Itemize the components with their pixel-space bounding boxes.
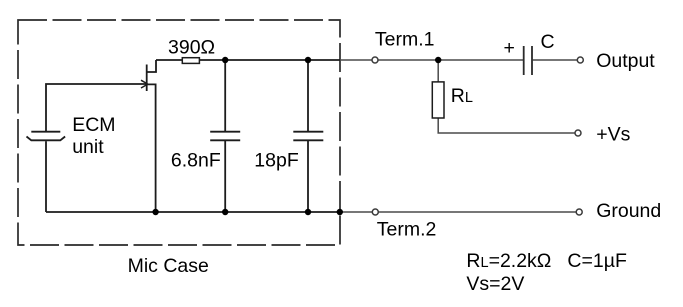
wire: RL top lead [437,60,439,82]
capacitor C2 18pF plates [293,132,323,141]
svg-text:Term.1: Term.1 [375,28,435,50]
junction dot bottom rail / C2 [305,209,311,215]
junction dot bottom rail / source [152,209,158,215]
capacitor C1 6.8nF plates [210,132,240,141]
svg-text:RL=2.2kΩ: RL=2.2kΩ [466,250,551,272]
wire: top rail resistor to case edge [199,59,340,61]
wire: C right plate to Output terminal [533,59,580,61]
wire: top rail inside case (drain to resistor) [156,59,182,61]
ECM capsule bottom plate [27,137,66,141]
svg-text:Mic Case: Mic Case [128,255,209,277]
junction dot top rail / C2 [305,57,311,63]
resistor RL body [432,82,444,118]
capacitor C plates [524,46,532,75]
ECM capsule top plate [31,131,60,133]
capacitor C2 18pF top lead [307,60,309,132]
junction dot top rail / RL [435,57,441,63]
capacitor C2 18pF bottom lead [307,141,309,212]
svg-text:Vs=2V: Vs=2V [466,273,524,295]
capacitor C1 6.8nF bottom lead [224,141,226,212]
svg-text:Ground: Ground [596,200,661,222]
capacitor C1 6.8nF top lead [224,60,226,132]
wire: gate wire from ECM top lead [46,84,147,131]
wire: top rail case edge to C left plate [340,59,523,61]
terminal Term.1 open circle [372,57,378,63]
terminal Ground open circle [576,209,582,215]
svg-text:ECM: ECM [72,114,115,136]
junction dot bottom rail / C1 [222,209,228,215]
svg-text:C: C [541,31,555,53]
svg-text:unit: unit [72,136,104,158]
wire: bottom ground rail inside case [46,211,340,213]
wire: RL bottom lead to +Vs terminal [438,118,578,133]
wire: ECM bottom lead [45,141,47,212]
transistor Q1 gate arrow [141,80,148,88]
svg-text:6.8nF: 6.8nF [171,149,221,171]
svg-text:Term.2: Term.2 [377,219,437,241]
transistor Q1 drain lead [147,60,156,72]
svg-text:+: + [504,37,515,59]
svg-text:C=1µF: C=1µF [567,250,627,272]
svg-text:+Vs: +Vs [596,124,630,146]
terminal +Vs open circle [575,130,581,136]
transistor Q1 source lead [147,84,156,212]
wire: bottom rail case edge to Ground terminal [340,211,579,213]
svg-text:18pF: 18pF [254,149,299,171]
svg-text:390Ω: 390Ω [168,37,215,59]
terminal Output open circle [577,57,583,63]
resistor R 390ohm body [182,58,199,64]
svg-text:Output: Output [596,50,655,72]
junction dot bottom rail / case edge [337,209,343,215]
Mic Case dashed box [18,20,340,245]
transistor Q1 channel [146,65,148,92]
terminal Term.2 open circle [372,209,378,215]
junction dot top rail / C1 [222,57,228,63]
